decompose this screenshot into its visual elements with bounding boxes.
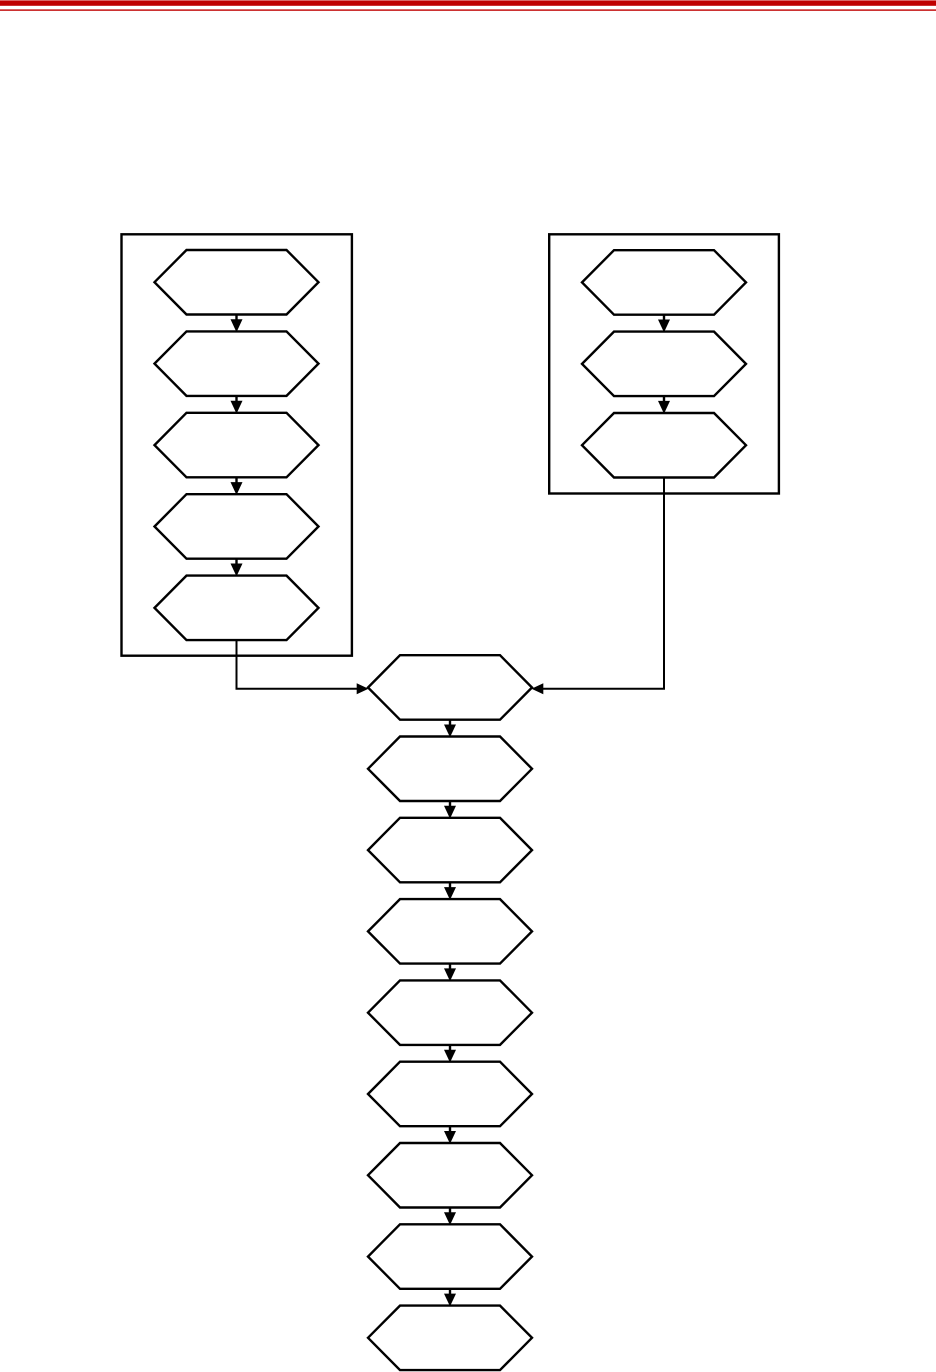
right chain hexagon R2 [582, 332, 746, 397]
arrow C4 to C5 [444, 964, 456, 982]
arrow C1 to C2 [444, 720, 456, 738]
arrow R1 to R2 [658, 315, 670, 333]
arrow C2 to C3 [444, 801, 456, 819]
arrow C3 to C4 [444, 882, 456, 900]
arrow R2 to R3 [658, 396, 670, 414]
right chain hexagon R1 [582, 250, 746, 315]
arrow L3 to L4 [231, 477, 243, 495]
arrow L2 to L3 [231, 396, 243, 414]
arrow C5 to C6 [444, 1045, 456, 1063]
left chain hexagon L1 [155, 250, 319, 315]
arrow C8 to C9 [444, 1289, 456, 1307]
top rule: thick red bar [0, 0, 936, 5]
central chain hexagon C2 [368, 737, 532, 802]
arrowhead into C1 left vertex [357, 683, 369, 694]
arrow C6 to C7 [444, 1126, 456, 1144]
left group box [122, 234, 352, 655]
wire from right box bottom to central hexagon C1 [543, 478, 665, 689]
central chain hexagon C5 [368, 980, 532, 1045]
central chain hexagon C3 [368, 818, 532, 883]
top rule: thin red line [0, 9, 936, 10]
arrow L1 to L2 [231, 315, 243, 333]
left chain hexagon L5 [155, 576, 319, 641]
central chain hexagon C4 [368, 899, 532, 964]
central chain hexagon C6 [368, 1062, 532, 1127]
arrowhead into C1 right vertex [532, 683, 544, 694]
left chain hexagon L2 [155, 331, 319, 396]
right group box [549, 234, 779, 493]
central chain hexagon C7 [368, 1143, 532, 1208]
left chain hexagon L3 [155, 413, 319, 478]
left chain hexagon L4 [155, 494, 319, 559]
right chain hexagon R3 [582, 413, 746, 478]
central chain hexagon C1 [368, 655, 532, 720]
central chain hexagon C9 [368, 1306, 532, 1371]
arrow C7 to C8 [444, 1208, 456, 1226]
wire from left box bottom to central hexagon C1 [237, 640, 358, 689]
central chain hexagon C8 [368, 1224, 532, 1289]
arrow L4 to L5 [231, 559, 243, 577]
